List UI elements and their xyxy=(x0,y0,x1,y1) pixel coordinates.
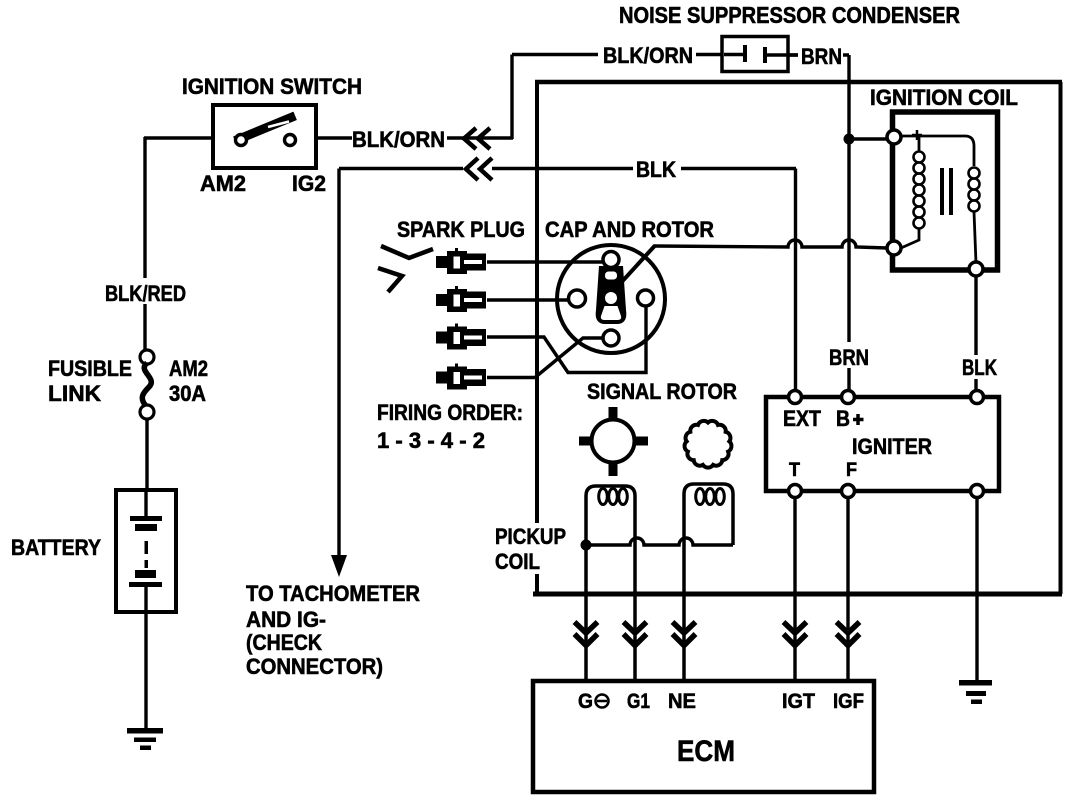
svg-text:BLK: BLK xyxy=(962,355,997,380)
svg-text:BLK/RED: BLK/RED xyxy=(105,281,186,306)
svg-text:AM2: AM2 xyxy=(169,356,208,381)
svg-text:PICKUP: PICKUP xyxy=(495,524,566,549)
svg-text:BRN: BRN xyxy=(829,345,869,370)
svg-text:IGT: IGT xyxy=(782,690,815,713)
svg-text:IGNITER: IGNITER xyxy=(852,434,932,459)
svg-text:30A: 30A xyxy=(169,381,206,406)
svg-text:CAP AND ROTOR: CAP AND ROTOR xyxy=(545,217,714,242)
svg-text:LINK: LINK xyxy=(48,381,101,406)
svg-text:IG2: IG2 xyxy=(292,171,326,196)
svg-text:BLK/ORN: BLK/ORN xyxy=(352,127,445,152)
svg-text:B: B xyxy=(836,406,850,431)
svg-text:AND IG-: AND IG- xyxy=(246,607,326,632)
svg-text:IGF: IGF xyxy=(833,690,864,713)
svg-text:BLK: BLK xyxy=(636,157,676,182)
svg-text:CONNECTOR): CONNECTOR) xyxy=(246,654,383,679)
svg-text:BRN: BRN xyxy=(801,44,842,69)
svg-text:NE: NE xyxy=(668,690,696,713)
svg-text:FUSIBLE: FUSIBLE xyxy=(48,356,132,381)
svg-text:1 - 3 - 4 - 2: 1 - 3 - 4 - 2 xyxy=(377,428,485,453)
svg-text:BLK/ORN: BLK/ORN xyxy=(603,43,693,68)
svg-text:(CHECK: (CHECK xyxy=(246,630,322,655)
svg-text:G: G xyxy=(578,690,593,713)
svg-text:FIRING ORDER:: FIRING ORDER: xyxy=(377,400,523,425)
svg-text:SPARK PLUG: SPARK PLUG xyxy=(397,217,525,242)
svg-text:NOISE SUPPRESSOR CONDENSER: NOISE SUPPRESSOR CONDENSER xyxy=(619,2,960,28)
svg-text:BATTERY: BATTERY xyxy=(11,535,101,560)
svg-text:F: F xyxy=(846,460,857,481)
svg-text:IGNITION SWITCH: IGNITION SWITCH xyxy=(182,74,362,99)
svg-text:SIGNAL ROTOR: SIGNAL ROTOR xyxy=(587,379,737,404)
svg-text:ECM: ECM xyxy=(677,735,735,768)
svg-text:AM2: AM2 xyxy=(200,171,246,196)
svg-text:COIL: COIL xyxy=(495,549,540,574)
svg-text:TO TACHOMETER: TO TACHOMETER xyxy=(246,581,420,606)
svg-text:T: T xyxy=(789,460,800,481)
svg-text:G1: G1 xyxy=(627,690,650,713)
svg-text:IGNITION COIL: IGNITION COIL xyxy=(870,85,1018,110)
svg-text:EXT: EXT xyxy=(783,406,821,431)
